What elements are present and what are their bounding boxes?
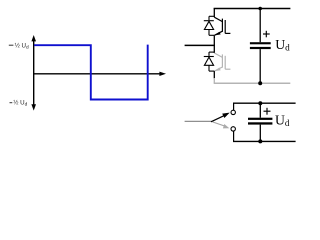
x axis bbox=[33, 72, 166, 76]
capacitor Cd plates bbox=[250, 42, 271, 44]
bottom rail bbox=[233, 140, 296, 142]
pole wire (gray) bbox=[185, 120, 212, 122]
bottom rail (gray) bbox=[214, 82, 291, 84]
top contact circle bbox=[231, 110, 235, 114]
capacitor plates bbox=[248, 118, 272, 120]
leg upper lead bbox=[213, 9, 215, 18]
top contact lead bbox=[233, 103, 235, 110]
blue square wave bbox=[34, 45, 148, 100]
capacitor lead upper bbox=[259, 103, 261, 118]
capacitor Cd upper lead bbox=[259, 9, 261, 43]
transistor V2 (IGBT, gray) bbox=[214, 53, 230, 71]
bottom contact circle bbox=[231, 127, 235, 131]
leg middle lead bbox=[213, 35, 215, 53]
y axis bbox=[31, 35, 36, 111]
output wire (phase) bbox=[185, 44, 215, 46]
bottom contact lead bbox=[233, 131, 235, 141]
svg-text:Ud: Ud bbox=[275, 113, 290, 128]
V1 emitter arrow bbox=[214, 32, 221, 36]
transistor V1 (IGBT, black) bbox=[214, 17, 230, 35]
junction dot top bbox=[258, 101, 262, 105]
label +1/2 Ud (top) bbox=[9, 44, 14, 46]
junction dot bottom bbox=[258, 139, 262, 143]
plus sign bbox=[264, 108, 271, 115]
top rail bbox=[233, 102, 296, 104]
junction dot top bbox=[258, 7, 262, 11]
top rail bbox=[214, 8, 291, 10]
leg lower lead (black part) bbox=[213, 71, 215, 78]
switch lever to top contact (black) bbox=[211, 115, 225, 121]
leg lower lead (gray part) bbox=[213, 78, 215, 83]
alternate lever to bottom contact (gray) bbox=[213, 122, 225, 126]
diode D2 (black, conducting) bbox=[204, 52, 215, 71]
svg-text:½ Ud: ½ Ud bbox=[13, 100, 27, 108]
capacitor lead lower bbox=[259, 125, 261, 142]
plus sign bbox=[263, 31, 270, 38]
V2 emitter arrow (gray) bbox=[214, 68, 221, 72]
diode D1 (black, antiparallel) bbox=[204, 16, 215, 35]
svg-text:½ Ud: ½ Ud bbox=[15, 42, 29, 50]
label -1/2 Ud (bottom) bbox=[10, 102, 13, 104]
capacitor Cd lower lead bbox=[259, 49, 261, 83]
junction dot bottom bbox=[258, 81, 262, 85]
svg-text:Ud: Ud bbox=[275, 37, 290, 52]
